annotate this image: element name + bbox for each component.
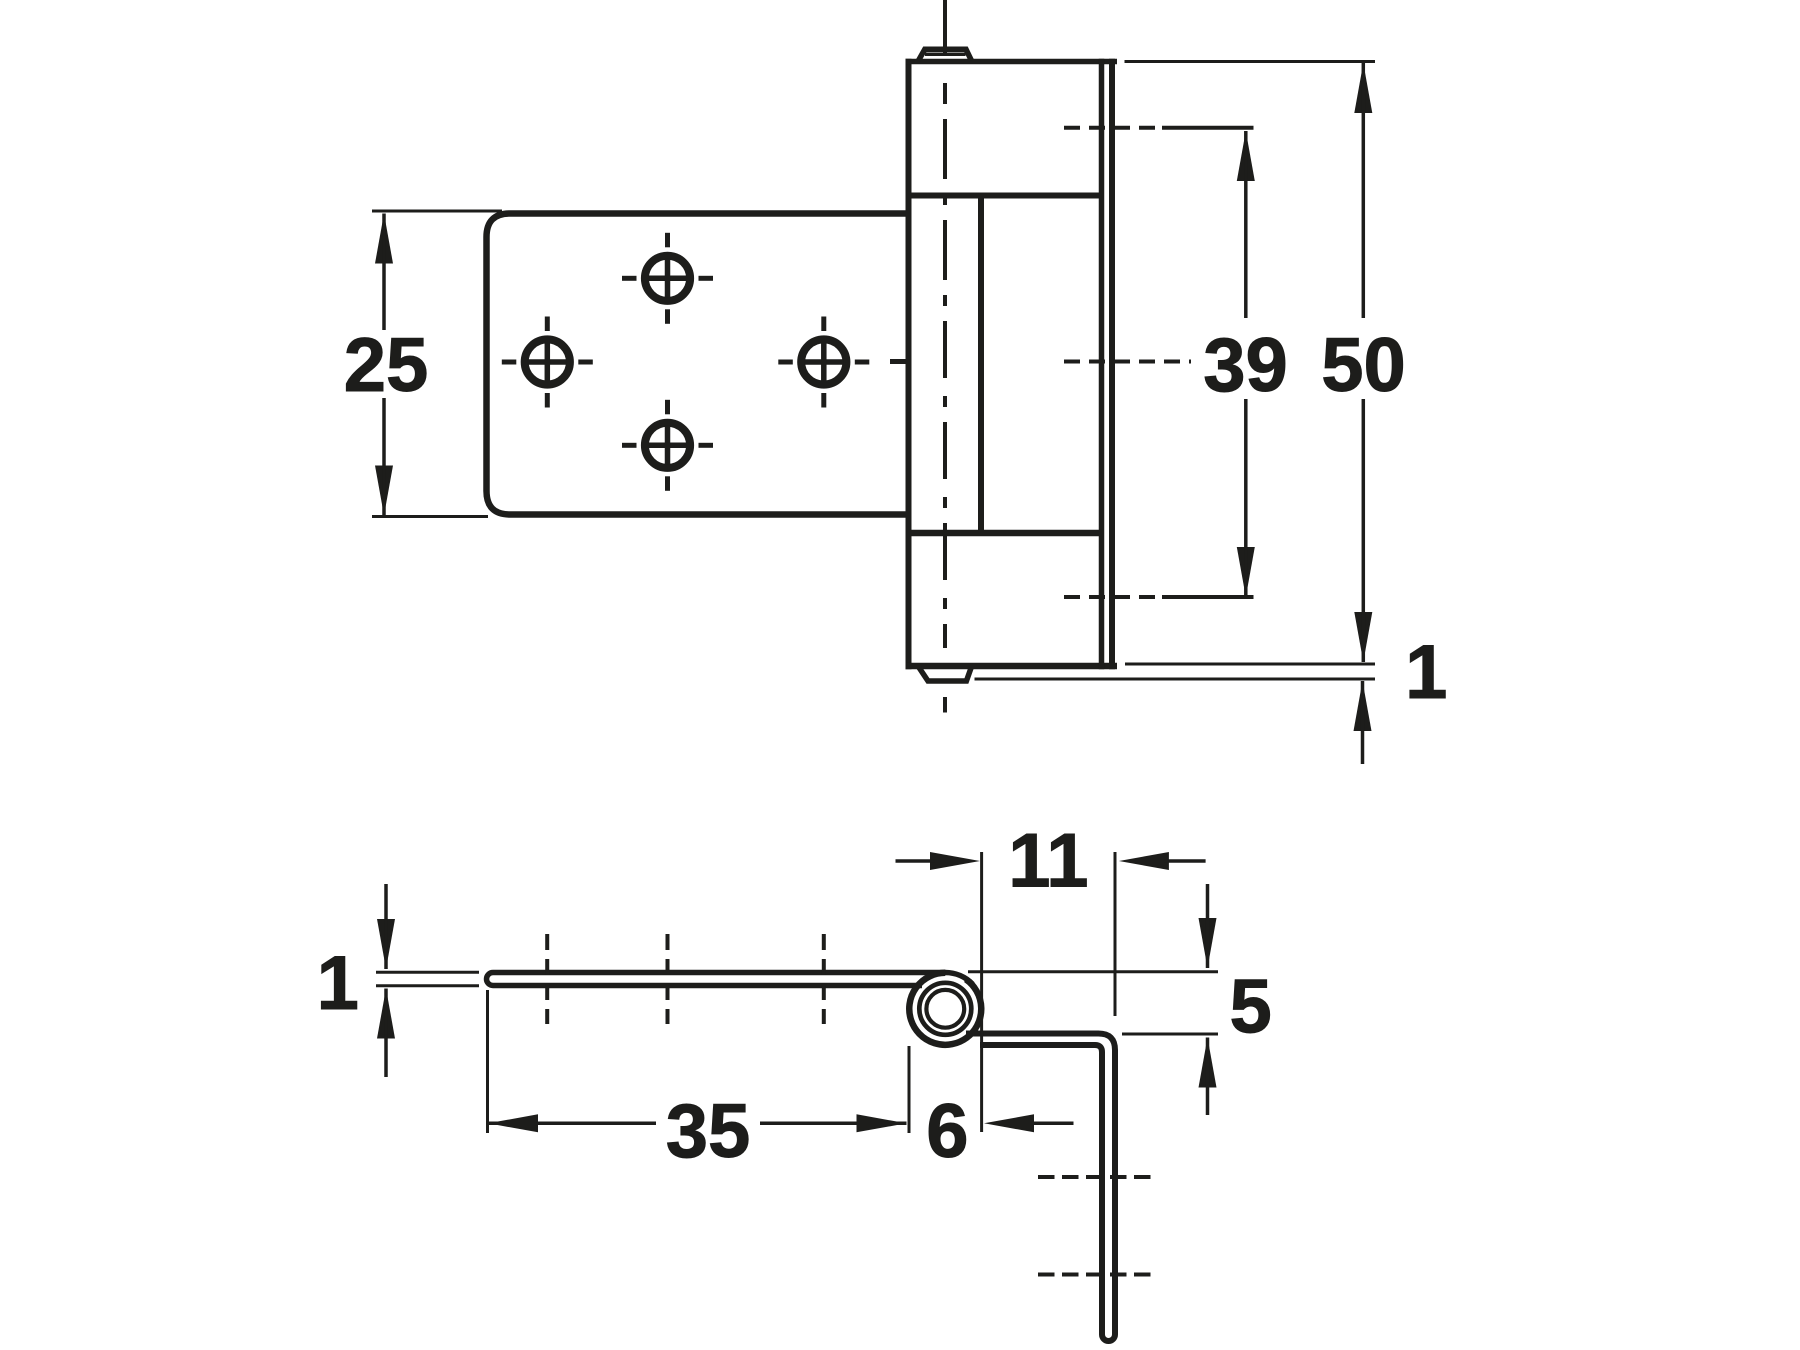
svg-text:5: 5: [1229, 965, 1271, 1050]
svg-text:1: 1: [317, 941, 359, 1026]
svg-text:11: 11: [1008, 819, 1088, 904]
svg-text:25: 25: [344, 323, 429, 408]
svg-text:6: 6: [926, 1089, 968, 1174]
svg-text:35: 35: [666, 1089, 751, 1174]
svg-text:39: 39: [1203, 323, 1288, 408]
svg-text:50: 50: [1321, 323, 1406, 408]
svg-text:1: 1: [1405, 630, 1447, 715]
